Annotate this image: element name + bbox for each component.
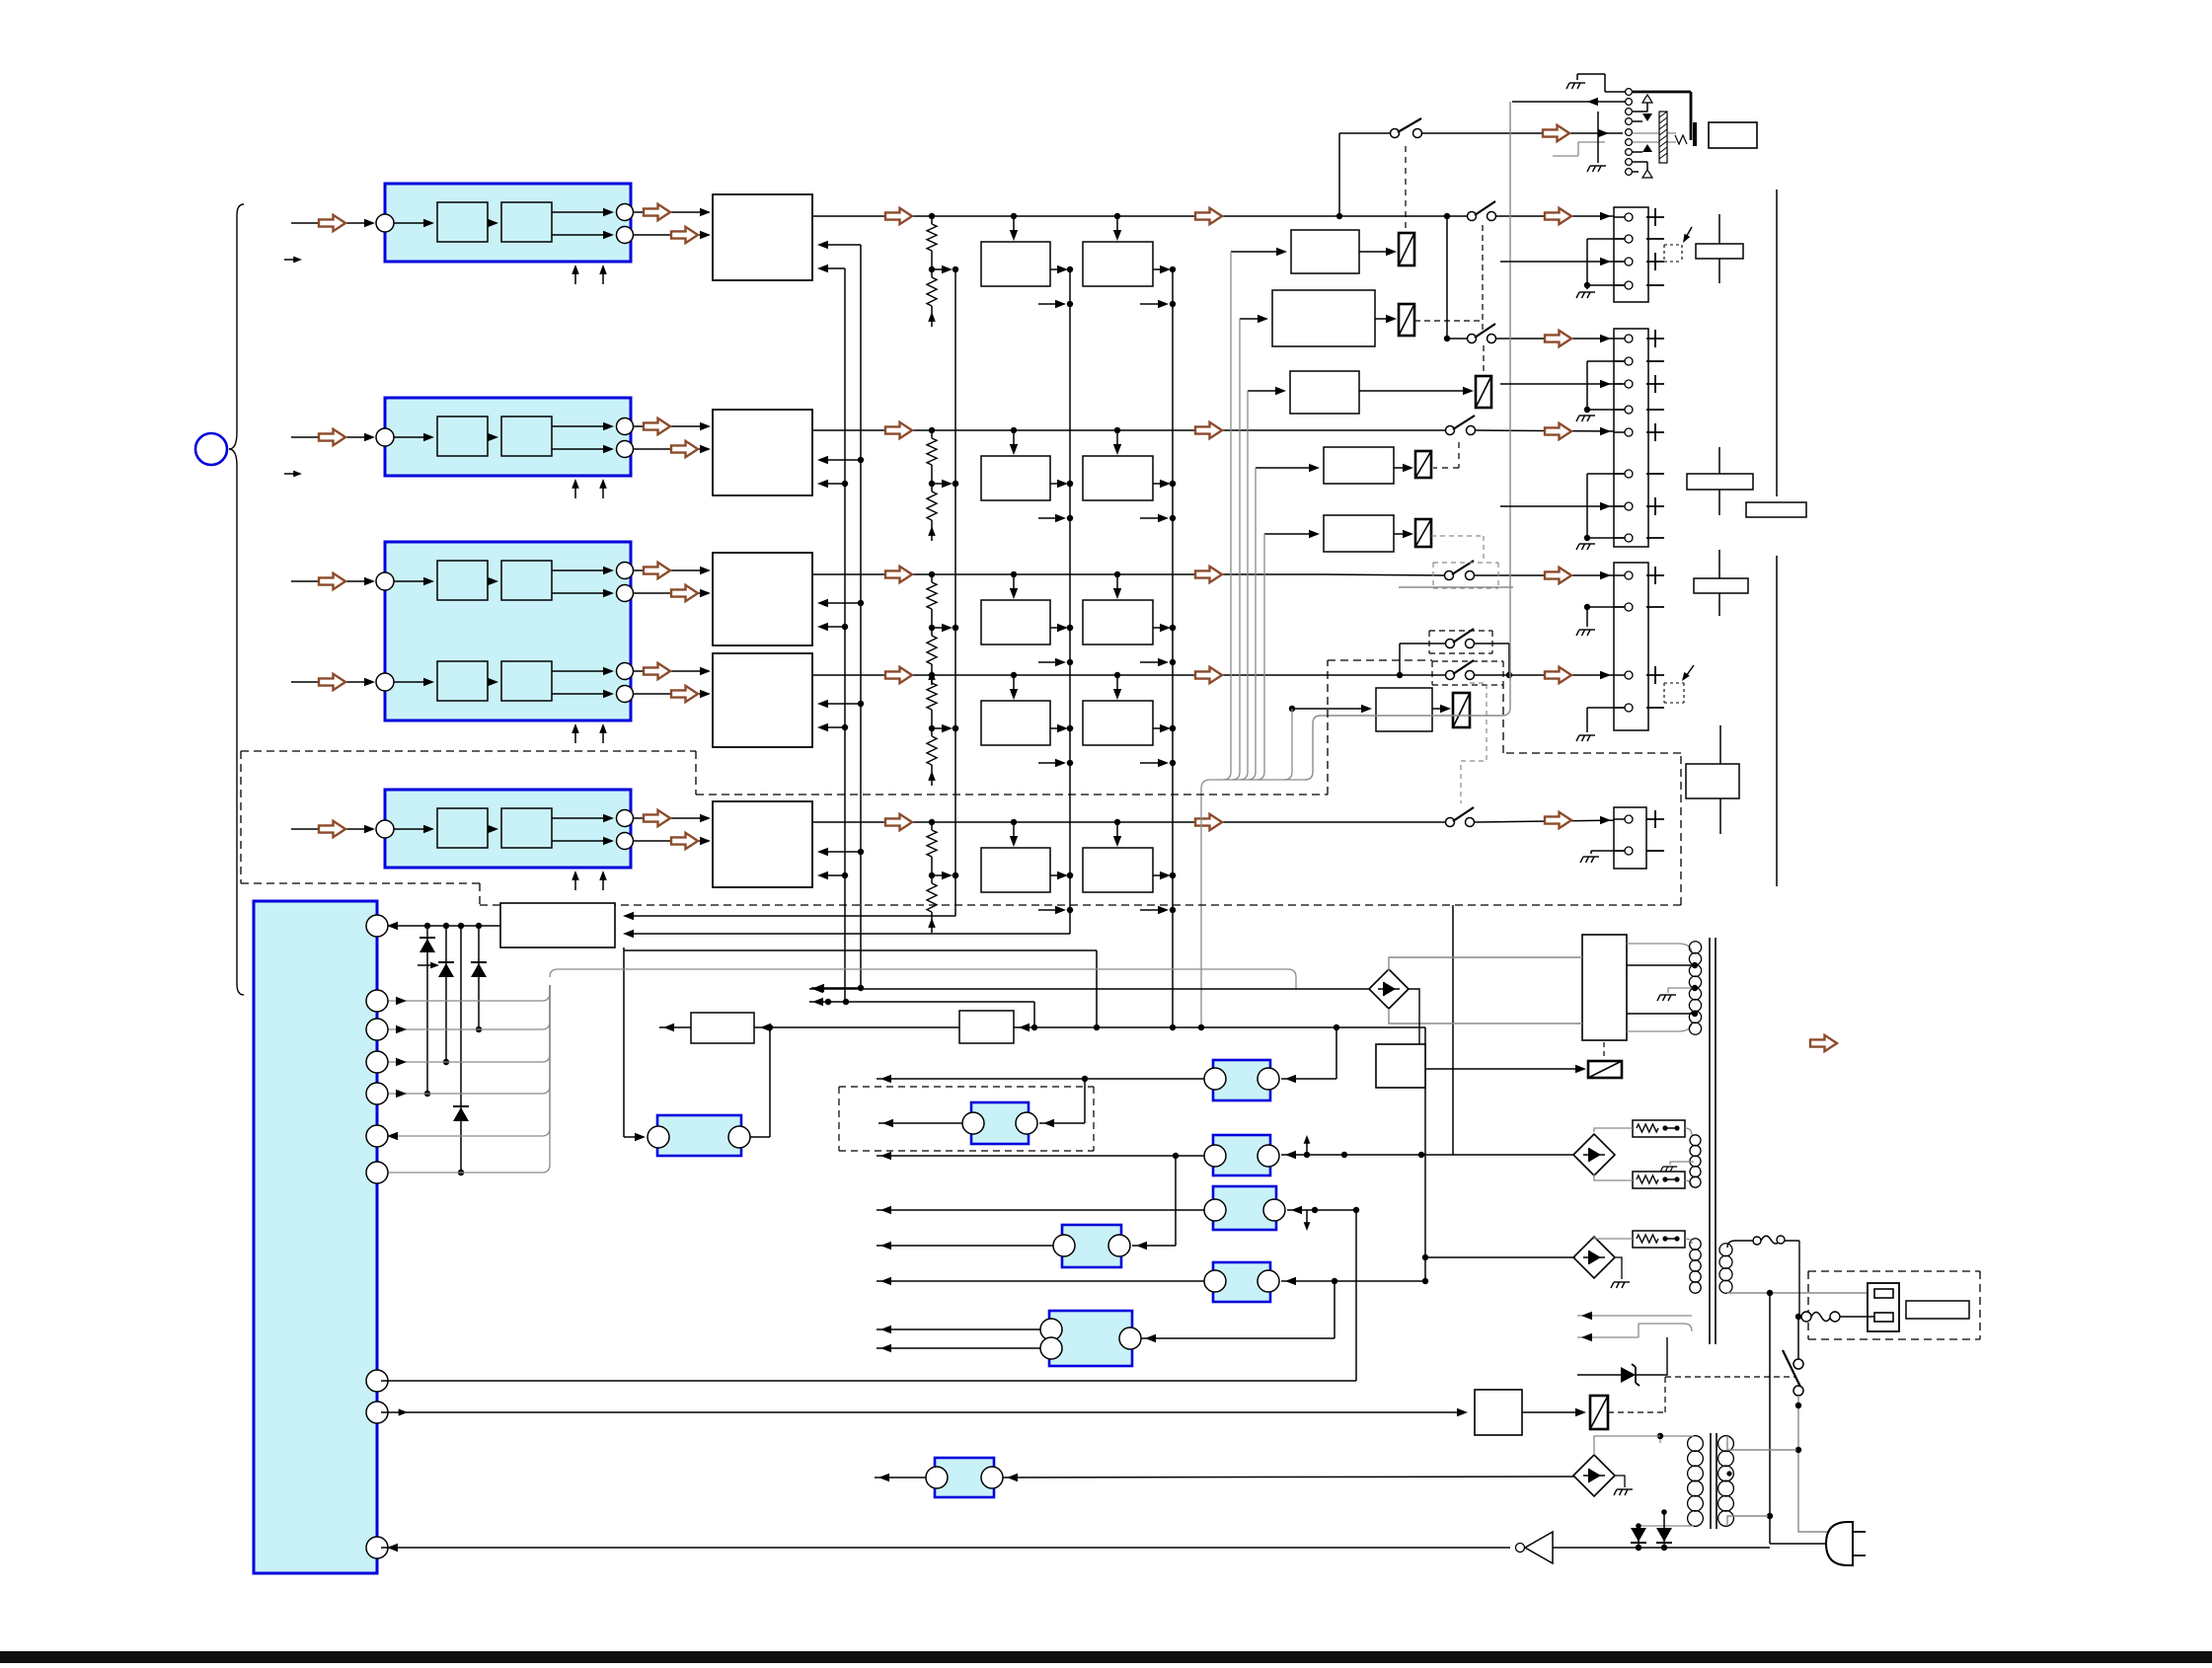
wire row4 to switch: [1323, 674, 1445, 676]
bus tap dots: [953, 481, 958, 878]
diode D2: [445, 926, 447, 1062]
opamp B: [971, 1102, 1029, 1144]
signal line row SUB WOOFER part1: [812, 821, 932, 823]
cpu pin arrows: [387, 997, 407, 1140]
opamp D: [1213, 1186, 1276, 1230]
preamp block IC3 (cyan): [385, 542, 631, 720]
feedback into U2: [817, 456, 861, 488]
wires BR1: [1594, 1128, 1633, 1132]
wires BR2: [1594, 1237, 1633, 1239]
wire cross A-B: [1446, 216, 1448, 339]
dot RY7 input: [1289, 706, 1295, 712]
wire BR main top: [1389, 957, 1582, 971]
wire sys aux 963: [624, 949, 1097, 951]
power amp U4: [713, 653, 812, 747]
wire to system control 2: [629, 933, 1070, 935]
switch S2 headphone: [1391, 118, 1422, 138]
AC plug: [1826, 1522, 1853, 1565]
resistor divider row CENTER: [927, 574, 958, 685]
power amp U5: [713, 801, 812, 887]
transformer T2 right winding: [1718, 1436, 1734, 1527]
arrow out page1: [1810, 1035, 1837, 1051]
speaker SUB icon: [1686, 764, 1739, 798]
opamp A: [1213, 1060, 1270, 1100]
wire hp out left: [1512, 101, 1625, 103]
signal line row FRONT L part1: [812, 215, 932, 217]
resistor divider row SUB WOOFER: [927, 822, 958, 933]
dashed box surround opt: [241, 660, 1681, 905]
preamp block IC2 (cyan): [385, 398, 631, 476]
wire row343 to terminal: [1496, 338, 1623, 340]
regulator box: [1582, 935, 1627, 1040]
opamp F: [1213, 1262, 1270, 1302]
bridge rectifier BR main: [1369, 969, 1409, 1009]
channel ch3b input stage: [291, 661, 711, 703]
wire row3 to switch: [1323, 574, 1444, 575]
gnd tie blockB1: [1587, 360, 1624, 362]
system cpu block (cyan): [254, 901, 377, 1573]
wire opamp F out: [877, 1280, 1204, 1282]
relay driver RY2: [1240, 290, 1414, 346]
wire inverter in: [1553, 1547, 1770, 1549]
node input circle: [195, 433, 227, 465]
wire opamp C out: [877, 1155, 1204, 1157]
arrow dn aux D: [1306, 1210, 1308, 1228]
speaker B icon: [1687, 474, 1753, 490]
dashed relay to switch: [1608, 1411, 1665, 1413]
opamp G: [1049, 1311, 1132, 1366]
fusible resistor FR1: [1633, 1120, 1685, 1137]
fuse F1: [1753, 1237, 1761, 1245]
switch S2b speakers B: [1468, 324, 1496, 343]
bus B+ vertical: [860, 245, 862, 988]
wire row343 to switch: [1447, 338, 1467, 340]
label box headphones: [1709, 122, 1757, 148]
dashed vert RY3: [1483, 345, 1485, 373]
wire sysctl down: [623, 948, 625, 1137]
wire opamp D in: [1287, 1209, 1356, 1211]
switch S4b center: [1445, 561, 1475, 580]
wire opamp G in: [1141, 1337, 1335, 1339]
hp ground mid: [1587, 166, 1606, 172]
dashed relay link S2: [1405, 146, 1407, 230]
bridge rectifier BR3: [1573, 1455, 1615, 1496]
dashed link S3-RY4: [1458, 442, 1460, 468]
wire row5 to terminal: [1475, 820, 1623, 822]
input brace: [229, 204, 244, 995]
opamp H: [935, 1458, 994, 1497]
feedback into U3: [817, 599, 861, 631]
relay RY power: [1590, 1396, 1608, 1429]
bridge rectifier BR1: [1573, 1134, 1615, 1175]
fusible resistor FR3: [1633, 1231, 1685, 1248]
opamp C: [1213, 1135, 1270, 1175]
wire opamp F in: [1281, 1280, 1425, 1282]
signal line row SURROUND part2: [932, 674, 1323, 676]
wire opamp D out: [877, 1209, 1204, 1211]
ps control box: [1475, 1390, 1522, 1435]
terminal block SUB WOOFER: [1614, 807, 1646, 869]
wire opamp G out2: [877, 1347, 1040, 1349]
wire primary top: [1727, 1241, 1753, 1248]
wire blockA +2: [1500, 261, 1623, 263]
dc detect line: [659, 1026, 1425, 1028]
wire opamp B out: [878, 1122, 962, 1124]
power amp U2: [713, 410, 812, 495]
power feed arrows IC3: [572, 723, 607, 743]
dashed box S4: [1429, 631, 1492, 653]
wire row5 to switch: [1323, 821, 1445, 823]
vert aux x1444 dot: [1422, 1254, 1428, 1260]
hp contact stubs: [1633, 95, 1652, 178]
dc detect box 1: [691, 1013, 754, 1043]
cpu pins: [366, 915, 388, 1558]
power amp U3: [713, 553, 812, 645]
bypass wire right: [1475, 643, 1509, 644]
wire opamp H out: [875, 1477, 926, 1478]
wire AC neutral: [1769, 1293, 1771, 1544]
dashed link RY2: [1414, 320, 1483, 322]
relay driver RY7: [1292, 688, 1470, 731]
gnd BR3: [1615, 1476, 1625, 1487]
signal line row SURROUND part1: [812, 674, 932, 676]
transformer core T1: [1709, 938, 1711, 1344]
gnd tie blockB2: [1587, 473, 1624, 475]
transformer T1 winding sec1: [1689, 942, 1701, 1034]
dashed sq impedance C: [1664, 665, 1694, 703]
hp VA pot: [1675, 135, 1687, 144]
headphone jack contacts: [1626, 89, 1633, 176]
wire BR main bottom: [1389, 1009, 1582, 1024]
relay RY reg: [1588, 1061, 1622, 1078]
relay driver RY4: [1256, 447, 1431, 484]
dashed box muting: [839, 1087, 1094, 1151]
gray dashed box S4b: [1433, 563, 1498, 588]
arrow aux d2: [418, 964, 436, 966]
hp plug bracket: [1693, 122, 1697, 146]
relay control bundle: [1201, 252, 1305, 1027]
drive stage row CENTER: [929, 571, 1176, 666]
label AC outlet: [1906, 1301, 1969, 1319]
terminal block SPEAKERS B: [1614, 563, 1648, 730]
channel ch2 input stage: [291, 417, 711, 458]
ground hp1: [1566, 83, 1585, 89]
hp gray channels: [1633, 132, 1676, 134]
bus B- vertical: [844, 268, 846, 1002]
gray wire hp mute: [1399, 586, 1513, 588]
bus drive out1: [1069, 269, 1071, 934]
diode D1: [426, 926, 428, 1094]
gnd tie blockC: [1587, 606, 1624, 608]
cpu line1568: [381, 1547, 1510, 1549]
signal line row SUB WOOFER part2: [932, 821, 1323, 823]
wire row2 to terminal: [1476, 430, 1623, 431]
relay driver RY5: [1264, 515, 1431, 552]
wire opamp H in: [1003, 1477, 1575, 1478]
wire AC live to plug: [1798, 1524, 1830, 1532]
dashed gray RY5: [1431, 535, 1484, 537]
vert aux x1472: [1452, 905, 1454, 1155]
dashed sq impedance A: [1664, 227, 1692, 262]
wire blockB +3: [1500, 505, 1623, 507]
wire opamp A in: [1281, 1078, 1336, 1080]
wire opamp G out1: [877, 1328, 1040, 1330]
wire opamp E out: [877, 1245, 1053, 1247]
bus drive out2: [1172, 269, 1174, 1027]
bus drive tap: [954, 269, 956, 916]
wire F2 vert: [1798, 1241, 1800, 1317]
power switch: [1793, 1359, 1803, 1369]
dc detect box 2: [959, 1011, 1014, 1043]
dashed box AC outlet: [1808, 1271, 1980, 1339]
protector box: [1376, 1044, 1425, 1088]
reg winding wires: [1627, 944, 1698, 1031]
switch S4 bypass: [1446, 629, 1475, 648]
bypass wire left: [1399, 644, 1401, 675]
vert aux x1444: [1424, 1027, 1426, 1281]
zener line: [1577, 1374, 1621, 1376]
relay driver RY3: [1248, 371, 1491, 414]
channel ch3a input stage: [291, 561, 711, 602]
fuse F2: [1795, 1314, 1801, 1320]
system control box: [500, 903, 615, 948]
wire opamp C in: [1281, 1154, 1575, 1156]
wires T2 left: [1660, 1436, 1694, 1443]
wire BR2 left: [1425, 1256, 1575, 1258]
winding sec3: [1690, 1239, 1701, 1293]
wire hp gray return: [1578, 141, 1605, 143]
drive stage row SUB WOOFER: [929, 819, 1176, 914]
arrow up aux C: [1306, 1138, 1308, 1156]
transformer T2 left winding: [1688, 1436, 1704, 1527]
wire opamp E in: [1132, 1245, 1176, 1247]
feedback into U4: [817, 700, 861, 731]
wire fuse to outlet: [1785, 1240, 1799, 1242]
dashed RY7 wrap: [1461, 683, 1487, 803]
feedback into U1: [817, 241, 861, 272]
wire opamp B in: [1039, 1122, 1085, 1124]
cpu control bundle: [381, 969, 1296, 1173]
sec out arrows: [1577, 1315, 1692, 1317]
terminal block SPEAKERS CENTER/SURR: [1614, 329, 1648, 547]
diode D4: [460, 926, 462, 1173]
speaker FRONT icon: [1696, 244, 1743, 259]
bus B+ tail: [811, 987, 861, 989]
signal line row FRONT R part2: [932, 429, 1323, 431]
diode D3: [478, 926, 480, 1029]
wire blockB +2: [1500, 383, 1623, 385]
wire row2 to switch: [1323, 429, 1445, 431]
switch S1 speakers A: [1468, 201, 1496, 221]
wire primary bottom: [1727, 1292, 1874, 1294]
speaker C icon: [1694, 578, 1748, 593]
label speakers B: [1746, 502, 1806, 517]
wire switch top: [1797, 1317, 1799, 1328]
opamp E: [1062, 1225, 1121, 1267]
signal line row CENTER part1: [812, 573, 932, 575]
power amp U1: [713, 194, 812, 280]
bridge rectifier BR2: [1573, 1237, 1615, 1278]
wire BR3 top: [1594, 1436, 1660, 1455]
signal line row FRONT R part1: [812, 429, 932, 431]
wire box to relay: [1522, 1411, 1582, 1413]
arrow ch2 aux: [284, 473, 299, 475]
arrow ch1 aux: [284, 259, 299, 261]
hp thick contact wire: [1633, 91, 1691, 94]
wire E2 out: [750, 1136, 770, 1138]
wire hp top: [1577, 74, 1625, 92]
cpu line1431: [381, 1411, 1464, 1413]
fusible resistor FR2: [1633, 1172, 1685, 1188]
wire row4 to terminal: [1475, 674, 1623, 676]
transformer T2 core: [1710, 1433, 1712, 1529]
diodes D5 D6: [1638, 1526, 1640, 1548]
wire row1 to terminal: [1496, 215, 1623, 217]
opamp E2: [657, 1115, 741, 1156]
resistor divider row FRONT L: [927, 216, 958, 327]
relay driver RY1: [1231, 230, 1414, 273]
gray vertical hp-detect: [1305, 102, 1510, 780]
wire opamp A out: [877, 1078, 1204, 1080]
bracket speakers right 2: [1776, 556, 1778, 886]
signal line row FRONT L part2: [932, 215, 1323, 217]
preamp block IC1 (cyan): [385, 184, 631, 262]
power feed arrows IC4: [572, 871, 607, 890]
wire to system control 1: [629, 915, 955, 917]
gnd winding sec2: [1670, 1162, 1694, 1165]
dashed vert S1-S2: [1482, 225, 1484, 332]
wire to BR main: [809, 988, 1369, 990]
transformer T1 primary: [1719, 1244, 1732, 1294]
bracket speakers right 1: [1776, 190, 1778, 496]
signal line row CENTER part2: [932, 573, 1323, 575]
wire rail tail 1015: [809, 1001, 1034, 1003]
gnd tie blockD: [1591, 850, 1624, 852]
channel ch1 input stage: [291, 202, 711, 244]
resistor divider row FRONT R: [927, 430, 958, 541]
switch S5 surround: [1446, 660, 1475, 680]
ground reg winding: [1668, 988, 1695, 993]
preamp block IC4 (cyan): [385, 790, 631, 868]
hp jack body hatched: [1659, 112, 1667, 163]
drive stage row FRONT L: [929, 213, 1176, 308]
drive stage row FRONT R: [929, 427, 1176, 522]
feedback into U5: [817, 848, 861, 879]
wire BR main right: [1409, 989, 1419, 1044]
resistor divider row SURROUND: [927, 675, 958, 786]
wires T2 right: [1727, 1436, 1796, 1450]
inverter gate: [1525, 1532, 1553, 1563]
terminal block SPEAKERS FRONT: [1614, 207, 1648, 302]
gnd tie blockA: [1587, 238, 1624, 240]
channel ch4 input stage: [291, 808, 711, 850]
wire cpu pin 938: [381, 925, 500, 927]
AC outlet: [1868, 1283, 1899, 1331]
switch S3: [1446, 416, 1476, 435]
wire headphone feed: [1338, 133, 1340, 216]
power feed arrows IC2: [572, 479, 607, 498]
dashed box S5: [1432, 661, 1503, 685]
wire headphone feed2: [1422, 132, 1623, 134]
switch S6 sub: [1446, 807, 1475, 827]
bottom scan bar: [0, 1651, 2212, 1663]
vert cpu line1399: [381, 1380, 1356, 1382]
wire row1 to switch: [1323, 215, 1467, 217]
winding sec2: [1690, 1135, 1701, 1187]
wire row3 to terminal: [1475, 574, 1623, 576]
drive stage row SURROUND: [929, 672, 1176, 767]
power feed arrows IC1: [572, 265, 607, 284]
